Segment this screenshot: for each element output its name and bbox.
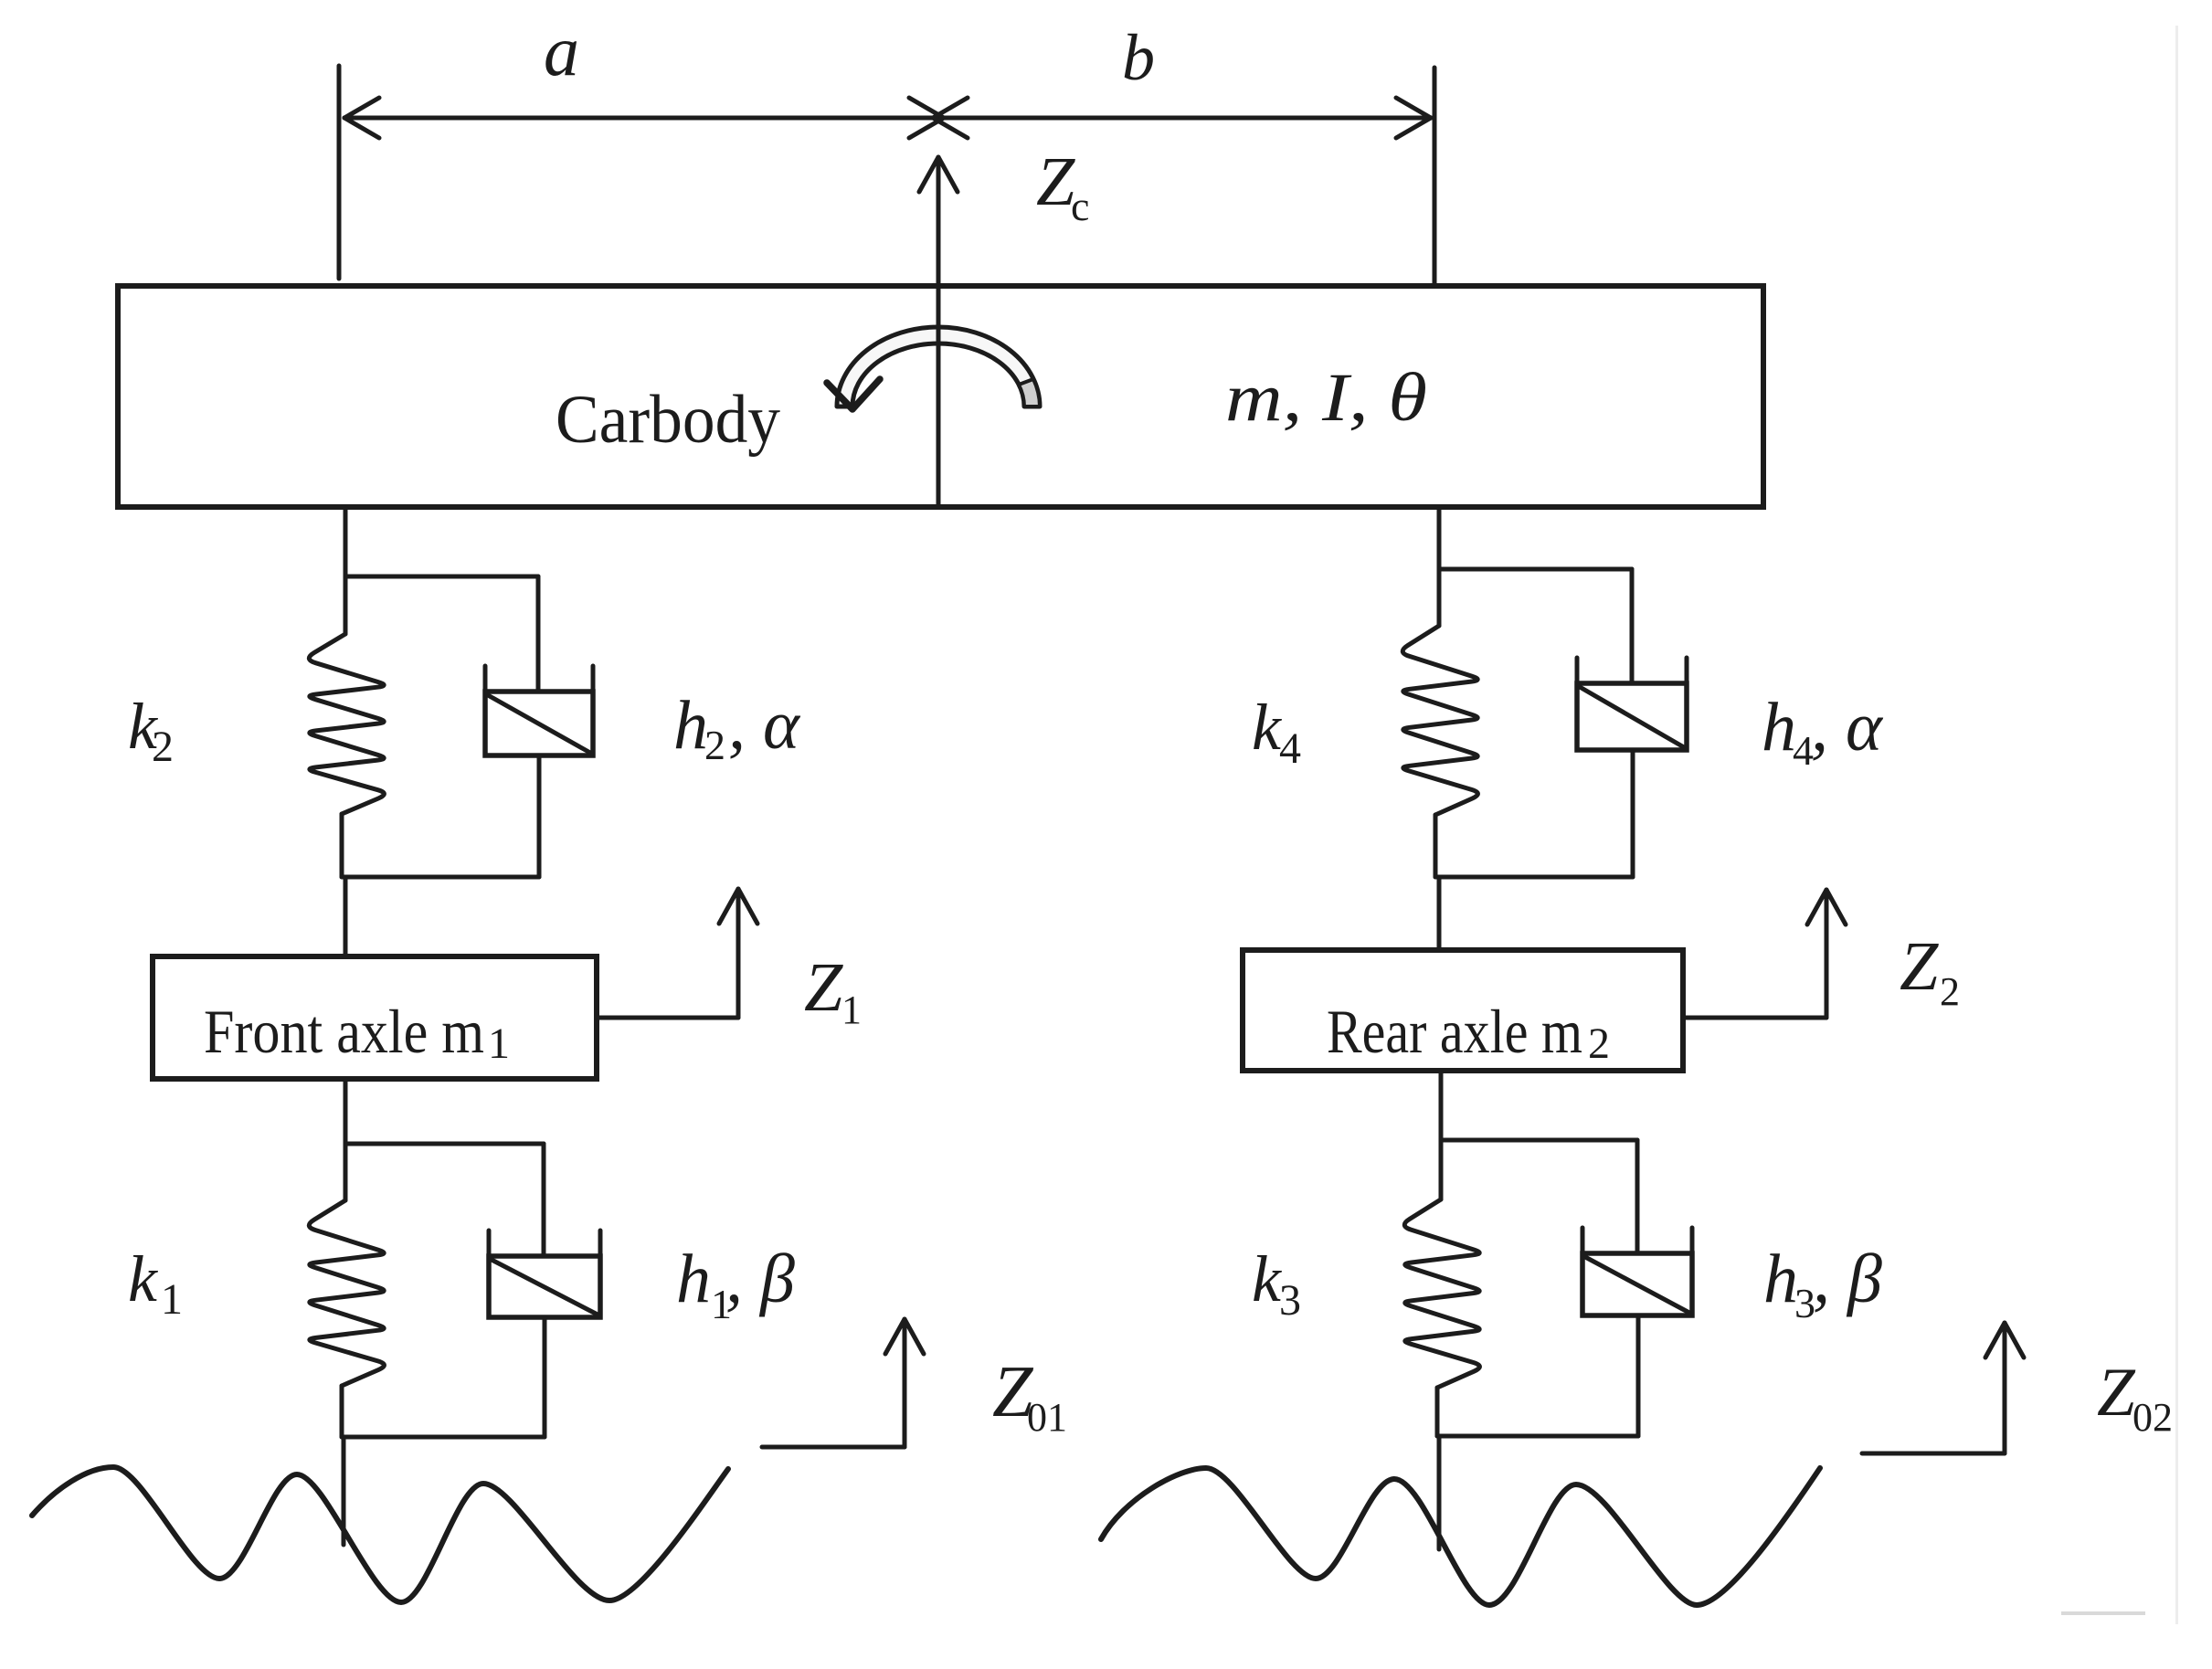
svg-text:02: 02 [2133,1395,2173,1440]
wire branch bottom h1 [342,1435,545,1440]
svg-text:2: 2 [1588,1019,1610,1068]
arrow Z02 [2003,1328,2007,1453]
rotation arc band [837,327,1040,407]
dimension line a-b [344,116,1431,121]
damper body box [485,692,593,755]
spring k3 [1404,1199,1479,1388]
dimension extension line left [337,66,342,279]
damper rod top [1635,1140,1640,1253]
svg-text:4: 4 [1279,724,1301,773]
wire spring k4 bottom [1434,815,1438,877]
damper cup whisker right [598,1231,603,1260]
front axle box [153,956,597,1079]
svg-text:Carbody: Carbody [556,382,780,458]
svg-text:1: 1 [841,988,862,1032]
damper diagonal [1585,1257,1689,1313]
svg-text:, β: , β [1813,1241,1882,1317]
wire to road right [1437,1436,1442,1549]
arrow Z01 base [762,1445,905,1450]
wire branch bottom h2 [342,875,539,880]
damper rod top [542,1144,546,1256]
damper rod bottom [537,755,542,877]
svg-text:k: k [128,1242,159,1315]
wire spring k1 bottom [340,1386,344,1437]
wire to road left [342,1437,346,1545]
damper rod top [536,576,541,692]
arrow Z2 [1825,895,1829,1018]
svg-text:3: 3 [1279,1276,1301,1325]
arrow Z02 base [1862,1452,2005,1456]
spring k4 [1402,626,1477,815]
wire branch bottom h4 [1435,875,1633,880]
svg-text:Front axle m: Front axle m [204,997,484,1066]
rear axle box [1243,950,1683,1071]
damper diagonal [488,695,590,753]
faint scan edge line right [2175,26,2178,1624]
wire branch bottom h3 [1437,1434,1638,1439]
rotation arrowhead [827,379,880,409]
arrow Zc [937,163,941,507]
svg-text:1: 1 [488,1019,510,1068]
wire spring k3 bottom [1435,1388,1440,1436]
spring k2 [309,634,384,814]
arrowhead b right [1396,98,1431,118]
damper cup whisker left [487,1231,492,1260]
arrowhead b left [933,98,968,118]
wire branch top h3 [1441,1138,1637,1143]
damper cup whisker right [1685,658,1689,687]
svg-text:01: 01 [1027,1395,1067,1440]
damper body box [1582,1253,1692,1315]
svg-text:h: h [1763,1241,1798,1317]
wire rear axle to k3 [1439,1071,1444,1199]
wire front axle to k1 [344,1079,348,1200]
svg-text:2: 2 [704,722,725,768]
damper cup whisker left [1575,658,1580,687]
damper diagonal [1580,687,1684,747]
svg-text:, α: , α [1811,689,1884,766]
svg-text:a: a [544,11,579,90]
damper rod bottom [1636,1315,1641,1436]
svg-text:h: h [673,687,708,764]
wire Z2 branch [1683,1016,1826,1020]
damper cup whisker right [591,666,596,695]
svg-text:Z: Z [1900,928,1939,1005]
svg-text:m, I, θ: m, I, θ [1225,360,1427,436]
svg-text:2: 2 [152,723,174,771]
wire branch top h2 [345,575,538,579]
arrow Z01 [903,1325,907,1447]
wire carbody to k4 [1437,507,1442,626]
svg-text:Z: Z [1036,143,1075,220]
road profile left [32,1467,728,1602]
svg-text:Z: Z [804,949,843,1026]
arrow Z1 [736,894,741,1018]
svg-text:2: 2 [1940,969,1960,1014]
svg-text:1: 1 [161,1275,183,1324]
damper cup whisker left [1581,1228,1585,1257]
damper diagonal [492,1260,598,1315]
damper rod bottom [543,1317,547,1437]
svg-text:Rear axle m: Rear axle m [1327,997,1582,1066]
svg-text:k: k [1252,691,1283,764]
damper cup whisker left [483,666,488,695]
wire carbody to k2 [344,507,348,634]
damper rod top [1630,569,1635,683]
spring k1 [309,1200,384,1386]
svg-text:h: h [1762,689,1796,766]
arrowhead a left [344,98,379,118]
carbody box [118,286,1763,507]
svg-text:h: h [676,1241,711,1317]
arrowhead a right [909,98,944,118]
damper body box [1577,683,1687,750]
dimension extension line right [1433,68,1437,284]
svg-text:b: b [1122,21,1155,94]
wire spring k2 bottom [340,814,344,877]
road profile right [1101,1468,1820,1605]
svg-text:, β: , β [725,1241,795,1317]
wire Z1 branch [597,1016,738,1020]
wire branch top h1 [345,1142,544,1146]
wire to rear axle [1437,877,1442,950]
rotation arc gray end [1019,379,1040,407]
svg-text:k: k [1252,1242,1283,1315]
damper rod bottom [1631,750,1635,877]
wire to front axle [344,877,348,956]
faint artefact line bottom right [2061,1611,2145,1615]
svg-text:c: c [1071,183,1089,229]
svg-text:, α: , α [728,687,801,764]
svg-text:Z: Z [2097,1355,2136,1431]
damper body box [489,1256,600,1317]
wire branch top h4 [1439,567,1632,572]
damper cup whisker right [1690,1228,1695,1257]
